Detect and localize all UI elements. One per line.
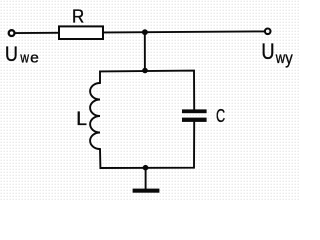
svg-text:e: e	[30, 50, 39, 67]
svg-text:C: C	[216, 107, 225, 127]
svg-text:y: y	[285, 49, 293, 68]
svg-text:U: U	[261, 40, 274, 64]
svg-text:R: R	[72, 6, 84, 27]
svg-text:w: w	[275, 49, 286, 66]
svg-text:L: L	[76, 109, 87, 130]
svg-text:U: U	[5, 42, 18, 66]
svg-text:w: w	[20, 49, 30, 66]
